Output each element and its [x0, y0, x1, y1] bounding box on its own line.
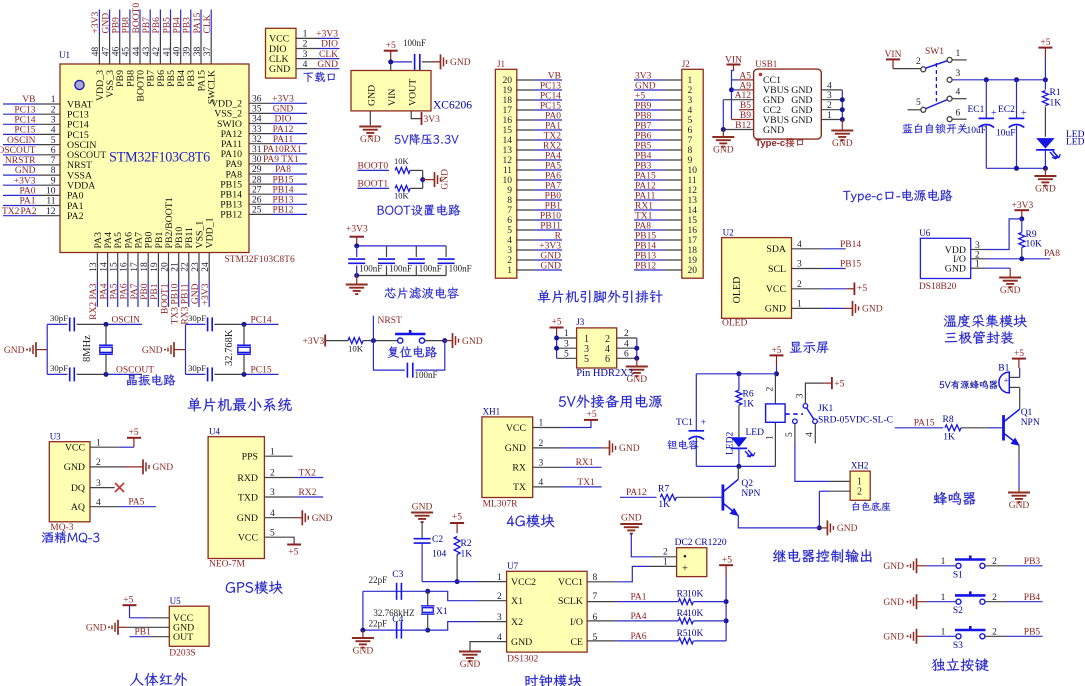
resistor 10K reset [348, 338, 363, 344]
caption 继电器控制输出 [773, 549, 871, 562]
power +5 tag top right [1038, 47, 1052, 49]
J1 pin 15 wire PA1 [517, 129, 535, 131]
svg-text:GND: GND [883, 598, 904, 608]
svg-text:1K: 1K [1050, 99, 1062, 109]
svg-text:GND: GND [460, 660, 481, 670]
JK1 pin5 wire to XH2 pin1 [794, 424, 796, 443]
U1 pin 19 PB1 wire [157, 253, 159, 282]
svg-text:1: 1 [941, 557, 946, 567]
svg-text:+3V3: +3V3 [346, 225, 368, 235]
svg-text:PA2: PA2 [67, 211, 84, 222]
svg-text:EC2: EC2 [998, 105, 1015, 115]
svg-text:30: 30 [252, 155, 262, 165]
svg-text:1: 1 [941, 593, 946, 603]
svg-text:PB13: PB13 [635, 252, 656, 262]
pushbutton S3 [956, 634, 961, 639]
J2 pin 7 wire PB6 [663, 139, 682, 141]
XH1 RX wire to RX1 [533, 466, 562, 468]
svg-text:17: 17 [503, 106, 513, 116]
svg-text:11: 11 [688, 176, 697, 186]
resistor R2 1K [454, 537, 460, 555]
svg-text:PA1: PA1 [631, 593, 647, 603]
caption 钽电容 [667, 440, 698, 450]
U3 VCC wire to +5 [90, 446, 120, 448]
capacitor 100nF filter #1 [356, 246, 358, 257]
svg-text:GND: GND [832, 139, 853, 149]
svg-text:GND: GND [312, 514, 333, 524]
svg-text:2: 2 [992, 593, 997, 603]
svg-text:OLED: OLED [732, 277, 743, 304]
svg-text:10K: 10K [687, 590, 704, 600]
svg-text:VCC: VCC [506, 423, 526, 434]
svg-text:1K: 1K [658, 500, 670, 510]
ground left of USB1 [722, 130, 724, 138]
svg-text:19: 19 [503, 86, 513, 96]
svg-text:+5: +5 [587, 410, 597, 420]
svg-text:OSCOUT: OSCOUT [116, 365, 154, 375]
SW1 pole2 contacts [921, 107, 926, 112]
svg-text:10K: 10K [687, 629, 704, 639]
J2 pin 20 wire PB12 [663, 269, 682, 271]
regulator U? XC6206 body [351, 71, 431, 111]
U4 VCC wire to +5 [264, 537, 294, 544]
svg-text:RX1: RX1 [576, 458, 594, 468]
svg-text:EC1: EC1 [968, 105, 985, 115]
svg-text:104: 104 [432, 550, 447, 560]
J1 pin 19 wire PC13 [517, 89, 535, 91]
resistor R3 10K [678, 599, 693, 605]
svg-text:100nF: 100nF [419, 264, 442, 274]
button S2 right wire to PB4 [985, 601, 1005, 603]
svg-text:2: 2 [663, 548, 668, 558]
J1 pin 18 wire PC14 [517, 99, 535, 101]
svg-text:11: 11 [503, 166, 512, 176]
svg-text:R2: R2 [461, 539, 472, 549]
svg-text:PB1: PB1 [545, 202, 562, 212]
svg-text:15: 15 [688, 216, 698, 226]
U4 TXD wire to RX2 [264, 496, 295, 498]
svg-text:GND: GND [765, 304, 786, 315]
svg-text:PB13: PB13 [272, 196, 293, 206]
svg-text:20: 20 [160, 262, 170, 272]
svg-text:PC13: PC13 [540, 82, 561, 92]
svg-text:4: 4 [805, 432, 815, 437]
wire +3V3 to VDD pin3 [971, 249, 985, 251]
button S3 left wire [917, 635, 927, 637]
svg-text:PB12: PB12 [220, 210, 242, 221]
capacitor 100nF reset [406, 363, 408, 378]
svg-text:PA15: PA15 [914, 419, 935, 429]
wire +5 node to VIN and cap [390, 62, 392, 71]
J2 pin 18 wire PB14 [663, 249, 682, 251]
caption 时钟模块 [525, 674, 582, 686]
U1 pin 37 SWCLK wire [210, 10, 212, 36]
switch SW1 pole1 contacts [921, 67, 926, 72]
svg-text:XC6206: XC6206 [433, 100, 472, 112]
svg-text:5: 5 [584, 354, 589, 365]
svg-text:GND: GND [1000, 286, 1021, 296]
svg-text:GND: GND [153, 463, 174, 473]
U1 pin 17 PA7 wire [137, 253, 139, 282]
svg-text:XH2: XH2 [851, 461, 869, 471]
J2 pin 10 wire PB3 [663, 169, 682, 171]
svg-text:VCC1: VCC1 [558, 577, 583, 588]
connector 下载口 header [266, 28, 297, 78]
svg-text:25: 25 [252, 206, 262, 216]
svg-text:Pin HDR2X3: Pin HDR2X3 [576, 368, 633, 379]
svg-text:GND: GND [360, 135, 381, 145]
pushbutton reset [398, 338, 403, 343]
svg-text:OLED: OLED [722, 319, 747, 329]
svg-text:10: 10 [688, 166, 698, 176]
svg-text:30pF: 30pF [188, 363, 206, 373]
U4 GND wire to GND tag [264, 517, 295, 519]
svg-text:VOUT: VOUT [407, 79, 418, 106]
svg-text:2: 2 [992, 557, 997, 567]
svg-text:GND: GND [621, 514, 642, 524]
U1 pin 35 VSS_2 wire [249, 112, 271, 114]
relay JK1 contacts [803, 404, 808, 409]
buzzer pin1 wire to +5 [1009, 376, 1019, 378]
svg-text:GND: GND [4, 346, 25, 356]
U1 pin 18 PB0 wire [147, 253, 149, 282]
svg-text:2: 2 [624, 329, 629, 339]
svg-text:4: 4 [956, 88, 961, 98]
svg-text:U2: U2 [723, 228, 734, 238]
svg-text:S3: S3 [953, 641, 963, 651]
svg-text:1K: 1K [461, 550, 473, 560]
power GND tag relay output [819, 527, 827, 529]
svg-text:PB7: PB7 [142, 17, 152, 34]
wire VIN to SW1 pin2 [893, 68, 921, 70]
sensor U5 D203S body [169, 606, 209, 646]
capacitor 30pF top (PC14) [186, 323, 206, 325]
svg-text:28: 28 [252, 175, 262, 185]
caption 复位电路 [388, 346, 437, 358]
resistor 10K on BOOT0 [395, 167, 410, 173]
svg-text:U4: U4 [209, 427, 220, 437]
MCU U1 STM32F103C8T6 [60, 64, 249, 253]
svg-text:+5: +5 [386, 41, 396, 51]
capacitor 100nF at regulator input [414, 54, 416, 70]
svg-text:J3: J3 [576, 317, 585, 327]
svg-text:1: 1 [663, 557, 668, 567]
svg-text:30pF: 30pF [188, 313, 206, 323]
top rail to C3 [363, 590, 428, 592]
svg-text:PA1: PA1 [545, 122, 561, 132]
svg-text:10K: 10K [348, 344, 364, 354]
svg-text:OUT: OUT [173, 632, 193, 643]
svg-text:PA5: PA5 [110, 283, 120, 299]
net NRST wire up [372, 316, 374, 341]
svg-text:16: 16 [688, 226, 698, 236]
svg-text:4: 4 [51, 126, 56, 136]
U1 pin 43 PB7 wire [149, 10, 151, 36]
svg-text:Q2: Q2 [741, 479, 753, 489]
svg-text:8: 8 [688, 146, 693, 156]
J2 pin 14 wire RX1 [663, 209, 682, 211]
svg-text:GND: GND [1035, 185, 1056, 195]
svg-text:10uF: 10uF [967, 126, 987, 136]
U1 pin 3 PC14 wire [3, 123, 38, 125]
svg-text:3V3: 3V3 [635, 72, 652, 82]
svg-text:+: + [682, 564, 688, 575]
svg-text:+: + [701, 418, 707, 429]
svg-text:+5: +5 [129, 428, 139, 438]
svg-text:1: 1 [51, 95, 56, 105]
svg-text:10: 10 [503, 176, 513, 186]
U7 CE pin5 wire to PA6 [587, 640, 616, 642]
svg-text:10K: 10K [394, 191, 410, 201]
J2 pin 1 wire 3V3 [663, 79, 682, 81]
svg-text:1K: 1K [743, 400, 755, 410]
caption 显示屏 [790, 341, 829, 353]
svg-text:ML307R: ML307R [483, 500, 518, 510]
svg-text:JK1: JK1 [818, 404, 834, 414]
svg-text:S1: S1 [953, 570, 963, 580]
svg-text:DC2 CR1220: DC2 CR1220 [675, 538, 727, 548]
svg-text:PB1: PB1 [150, 283, 160, 300]
svg-text:SDA: SDA [766, 244, 786, 255]
svg-text:R: R [555, 232, 562, 242]
svg-text:29: 29 [252, 165, 262, 175]
button S2 left wire [917, 601, 927, 603]
svg-text:1: 1 [303, 30, 308, 40]
svg-text:PC14: PC14 [14, 116, 35, 126]
caption 三极管封装 [945, 331, 1014, 344]
svg-text:LED: LED [1066, 138, 1085, 148]
svg-text:TX1: TX1 [577, 478, 595, 488]
svg-text:DS18B20: DS18B20 [919, 282, 957, 292]
svg-text:PA7: PA7 [545, 182, 561, 192]
U1 pin 33 PA12 wire [249, 133, 271, 135]
caption GPS模块 [226, 581, 283, 594]
svg-text:PA4: PA4 [631, 612, 647, 622]
svg-text:9: 9 [507, 186, 512, 196]
wire GND to DC2 pin2 [631, 534, 652, 557]
svg-text:STM32F103C8T6: STM32F103C8T6 [109, 150, 210, 166]
U1 pin 46 PB9 wire [119, 10, 121, 36]
crystal Y2 32.768K [243, 324, 245, 345]
J1 pin 8 wire PB0 [517, 199, 535, 201]
U2 SDA wire to PB14 [792, 248, 823, 250]
svg-text:GND: GND [269, 64, 290, 75]
svg-text:VB: VB [548, 72, 561, 82]
J1 pin 1 wire GND [517, 269, 535, 271]
svg-text:1: 1 [507, 266, 512, 276]
svg-text:VCC: VCC [238, 533, 258, 544]
svg-text:PA15: PA15 [193, 12, 203, 33]
svg-text:5: 5 [507, 226, 512, 236]
svg-text:18: 18 [503, 96, 513, 106]
U1 pin 28 PB15 wire [249, 183, 271, 185]
svg-text:PC15: PC15 [540, 102, 561, 112]
U1 pin 42 PB6 wire [159, 10, 161, 36]
wire PC15 [244, 373, 279, 375]
svg-text:PA4: PA4 [99, 283, 109, 299]
svg-text:C2: C2 [432, 535, 443, 545]
svg-text:Type-c: Type-c [755, 138, 785, 149]
svg-text:SCLK: SCLK [558, 596, 583, 607]
svg-text:PB4: PB4 [173, 17, 183, 34]
svg-text:100nF: 100nF [449, 264, 472, 274]
svg-text:BOOT1: BOOT1 [160, 283, 170, 314]
svg-text:43: 43 [142, 47, 152, 57]
svg-text:2: 2 [51, 105, 56, 115]
svg-text:GND: GND [540, 262, 561, 272]
svg-text:TXD: TXD [238, 492, 258, 503]
connector XH2 body [850, 471, 870, 500]
svg-text:47: 47 [101, 47, 111, 57]
svg-text:+5: +5 [552, 318, 562, 328]
left rail of crystal caps [362, 591, 364, 630]
caption 人体红外 [130, 673, 187, 686]
J3 left pins wires [557, 337, 577, 339]
svg-text:2: 2 [688, 86, 693, 96]
wire joining right GND pins [841, 90, 843, 120]
filter caps top rail [357, 245, 446, 247]
resistor R9 10K pullup [1021, 219, 1023, 232]
power GND tag right of cap [433, 61, 441, 63]
svg-text:+5: +5 [288, 548, 298, 558]
U1 pin 14 PA4 wire [107, 253, 109, 282]
U7 GND pin4 wire [470, 642, 507, 651]
svg-text:RX1: RX1 [635, 202, 653, 212]
U1 pin 24 VDD_1 wire [208, 253, 210, 282]
capacitor C4 22pF [396, 622, 398, 639]
U1 pin 44 BOOT0 wire [139, 10, 141, 36]
U1 pin 36 VDD_2 wire [249, 102, 271, 104]
U1 pin 27 PB14 wire [249, 193, 271, 195]
resistor 10K on BOOT1 [395, 185, 410, 191]
capacitor 30pF top (OSCIN) [47, 323, 67, 325]
svg-text:J2: J2 [682, 59, 690, 69]
J2 pin 8 wire PB5 [663, 149, 682, 151]
svg-text:12: 12 [688, 186, 698, 196]
svg-text:6: 6 [956, 109, 961, 119]
download port pin 2 wire DIO [296, 48, 318, 50]
svg-text:3: 3 [507, 246, 512, 256]
SW1 pin4 wire [952, 98, 967, 100]
svg-text:45: 45 [122, 47, 132, 57]
svg-text:5: 5 [51, 136, 56, 146]
svg-text:SCL: SCL [768, 264, 786, 275]
svg-text:34: 34 [252, 115, 262, 125]
U1 pin 13 PA3 wire [96, 253, 98, 282]
SW1 lever pole2 [926, 100, 948, 109]
svg-text:30pF: 30pF [50, 363, 68, 373]
U1 pin 39 PB3 wire [190, 10, 192, 36]
U1 pin 1 VBAT wire [3, 103, 38, 105]
chip U7 DS1302 body [507, 571, 587, 652]
U1 pin 8 VSSA wire [3, 174, 38, 176]
svg-text:I/O: I/O [570, 617, 583, 628]
svg-text:PA6: PA6 [120, 283, 130, 299]
relay contact dashed link [785, 413, 803, 415]
svg-text:TC1: TC1 [676, 418, 693, 428]
svg-text:U5: U5 [170, 596, 181, 606]
svg-text:2: 2 [507, 256, 512, 266]
svg-text:14: 14 [99, 262, 109, 272]
svg-text:GND: GND [142, 346, 163, 356]
svg-text:U7: U7 [507, 561, 518, 571]
svg-text:PA11: PA11 [273, 135, 294, 145]
J1 pin 7 wire PB1 [517, 209, 535, 211]
svg-text:PA8: PA8 [275, 165, 291, 175]
caption 蜂鸣器 [934, 492, 976, 505]
svg-text:1: 1 [564, 329, 569, 339]
U1 pin 31 PA10 wire [249, 153, 271, 155]
J1 pin 2 wire GND [517, 259, 535, 261]
U4 RXD wire to TX2 [264, 477, 295, 479]
capacitor C3 22pF [396, 583, 398, 600]
svg-text:PB0: PB0 [545, 192, 562, 202]
resistor R5 10K [678, 638, 693, 644]
U1 pin 40 PB4 wire [180, 10, 182, 36]
svg-text:XH1: XH1 [483, 407, 501, 417]
J2 pin 6 wire PB7 [663, 129, 682, 131]
svg-text:22pF: 22pF [369, 575, 388, 585]
svg-text:10K: 10K [1026, 240, 1043, 250]
U1 pin 23 VSS_1 wire [198, 253, 200, 282]
caption BOOT设置电路 [377, 204, 460, 216]
svg-text:GND: GND [273, 105, 294, 115]
svg-text:X1: X1 [436, 607, 448, 617]
U5 OUT wire to PB1 [149, 636, 169, 638]
U1 pin 32 PA11 wire [249, 143, 271, 145]
svg-text:DQ: DQ [71, 483, 85, 494]
svg-text:DS1302: DS1302 [507, 655, 538, 665]
svg-text:4: 4 [688, 106, 693, 116]
svg-text:PB3: PB3 [183, 17, 193, 34]
svg-text:VB: VB [22, 95, 35, 105]
svg-text:PA12: PA12 [635, 182, 656, 192]
svg-text:35: 35 [252, 105, 262, 115]
svg-text:PPS: PPS [242, 452, 258, 463]
svg-text:GND: GND [237, 513, 258, 524]
svg-text:3: 3 [827, 91, 832, 101]
button S1 right wire to PB3 [985, 565, 1005, 567]
svg-text:PB12: PB12 [272, 206, 293, 216]
JK1 pin3 wire to +5 [805, 383, 824, 404]
svg-text:GND: GND [511, 637, 532, 648]
svg-text:GND: GND [945, 264, 966, 275]
svg-text:TX1: TX1 [635, 212, 653, 222]
U1 pin 29 PA8 wire [249, 173, 271, 175]
U1 pin 34 SWIO wire [249, 123, 271, 125]
svg-text:44: 44 [132, 47, 142, 57]
svg-text:NRSTR: NRSTR [5, 156, 36, 166]
svg-text:GND: GND [635, 82, 656, 92]
svg-text:PB15: PB15 [840, 260, 861, 270]
USB1 pin B12 stub [723, 129, 753, 131]
pushbutton S1 [956, 563, 961, 568]
download port pin 1 wire +3V3 [296, 37, 318, 39]
svg-text:+3V3: +3V3 [201, 283, 211, 305]
svg-text:PC14: PC14 [540, 92, 561, 102]
svg-text:PB4: PB4 [1024, 593, 1041, 603]
svg-text:•: • [683, 551, 687, 563]
svg-text:9: 9 [51, 176, 56, 186]
svg-text:SW1: SW1 [925, 47, 944, 57]
svg-text:+5: +5 [1040, 38, 1050, 48]
U7 VCC1 pin8 wire to DC2 [587, 581, 616, 583]
button S3 right wire to PB5 [985, 635, 1005, 637]
svg-text:PA0: PA0 [545, 112, 561, 122]
SW1 pin6 wire [952, 118, 967, 120]
U1 pin 9 VDDA wire [3, 184, 38, 186]
svg-text:PB9: PB9 [635, 102, 652, 112]
